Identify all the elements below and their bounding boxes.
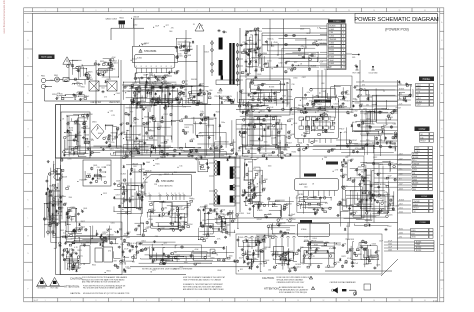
svg-text:R612: R612 [340,99,344,101]
svg-text:R105: R105 [119,183,123,185]
svg-text:C605: C605 [221,210,225,212]
svg-text:R230: R230 [216,112,220,114]
svg-text:CON3: CON3 [421,196,428,198]
svg-text:FR107: FR107 [339,129,344,131]
svg-text:C605: C605 [388,244,392,246]
svg-text:D204: D204 [399,212,403,214]
svg-text:D603: D603 [124,208,128,210]
svg-text:(POWER PCB): (POWER PCB) [385,27,409,31]
svg-text:9: 9 [247,10,248,12]
svg-text:1N4148: 1N4148 [160,157,166,159]
svg-text:BC858: BC858 [399,89,404,91]
svg-text:100n: 100n [264,141,268,143]
svg-text:47uF: 47uF [293,123,297,125]
svg-text:C64: C64 [122,272,125,274]
svg-text:R105: R105 [417,88,421,90]
svg-text:R612: R612 [130,199,134,201]
svg-text:IC805: IC805 [257,210,263,212]
svg-text:C605: C605 [116,148,120,150]
svg-text:1N4148: 1N4148 [413,163,419,165]
svg-text:1N4148: 1N4148 [77,92,83,94]
svg-text:C817: C817 [64,150,68,152]
svg-text:R77: R77 [399,179,402,181]
svg-text:FR107: FR107 [257,219,262,221]
svg-text:47uF: 47uF [388,241,392,243]
svg-text:C605: C605 [388,215,392,217]
svg-text:BC858: BC858 [269,86,274,88]
svg-text:BC858: BC858 [349,239,354,241]
svg-text:C605: C605 [266,126,270,128]
svg-text:ZD60: ZD60 [248,31,252,33]
svg-text:R77: R77 [412,233,415,235]
svg-text:C90: C90 [364,114,367,116]
svg-text:330: 330 [78,66,81,68]
svg-text:C64: C64 [50,80,53,82]
svg-text:100n: 100n [268,165,272,167]
svg-text:10uF: 10uF [379,241,383,243]
svg-text:0.1u: 0.1u [372,209,375,211]
svg-text:CAUTION:: CAUTION: [70,292,81,295]
svg-text:BC858: BC858 [179,209,185,211]
svg-text:R44: R44 [366,223,369,225]
svg-text:BC858: BC858 [392,111,397,113]
svg-text:R230: R230 [296,107,300,109]
svg-text:BC858: BC858 [302,99,307,101]
svg-text:D603: D603 [413,179,417,181]
svg-text:D11: D11 [421,137,424,139]
svg-text:D11: D11 [88,174,91,176]
svg-text:R230: R230 [170,209,174,211]
svg-text:0.1u: 0.1u [248,58,252,60]
svg-text:1N4148: 1N4148 [145,171,151,173]
svg-text:475: 475 [171,27,174,29]
svg-text:R77: R77 [272,138,275,140]
svg-text:475: 475 [376,197,379,199]
svg-text:ZD60: ZD60 [313,141,317,143]
svg-text:D603: D603 [368,97,372,99]
svg-text:1N4148: 1N4148 [414,201,420,203]
svg-text:T8001: T8001 [119,18,124,20]
svg-text:Q601: Q601 [306,254,310,256]
svg-text:8: 8 [171,66,172,68]
svg-text:C605: C605 [122,148,126,150]
svg-text:7: 7 [197,10,198,12]
svg-text:C90: C90 [66,136,69,138]
svg-text:100n: 100n [135,119,139,121]
svg-text:D603: D603 [84,126,88,128]
svg-text:C90: C90 [111,142,114,144]
svg-text:100n: 100n [286,230,290,232]
svg-text:R821: R821 [341,256,345,258]
svg-text:3: 3 [343,32,344,34]
svg-text:R230: R230 [163,81,167,83]
svg-text:NOTES: ALL RESISTORS 1/4W 5%: NOTES: ALL RESISTORS 1/4W 5% UNLESS OTHE… [142,267,193,270]
svg-text:D204: D204 [133,58,137,60]
svg-text:C605: C605 [330,43,335,45]
svg-text:R230: R230 [76,268,80,270]
svg-text:R105: R105 [277,136,281,138]
svg-text:D11: D11 [378,173,381,175]
svg-text:330: 330 [184,89,187,91]
svg-text:C64: C64 [268,269,271,271]
svg-text:10: 10 [272,10,274,12]
svg-text:D603: D603 [395,206,399,208]
svg-text:D204: D204 [414,204,418,206]
svg-text:BC858: BC858 [413,157,418,159]
svg-text:14: 14 [373,300,375,302]
svg-text:2: 2 [70,10,71,12]
svg-text:R77: R77 [130,111,133,113]
svg-text:AND THAT IMPORTANT NOTICE GIVE: AND THAT IMPORTANT NOTICE GIVEN BELOW [82,281,120,284]
svg-text:BC858: BC858 [413,154,418,156]
svg-text:R77: R77 [181,118,184,120]
svg-text:C64: C64 [381,109,384,111]
svg-text:R821: R821 [350,251,354,253]
svg-text:475: 475 [108,251,111,253]
svg-text:R230: R230 [283,149,287,151]
svg-text:D603: D603 [47,217,51,219]
svg-text:R230: R230 [292,151,296,153]
svg-text:R77: R77 [238,150,241,152]
svg-text:R105: R105 [165,75,169,77]
svg-text:Q601: Q601 [113,62,117,64]
svg-text:Q601: Q601 [140,100,144,102]
svg-text:10uF: 10uF [388,247,392,249]
svg-text:D603: D603 [285,204,289,206]
svg-text:Q601: Q601 [147,227,151,229]
svg-text:C817: C817 [417,105,421,107]
svg-text:100n: 100n [184,214,188,216]
svg-text:C605: C605 [146,162,150,164]
svg-text:C90: C90 [263,153,266,155]
svg-text:1N4148: 1N4148 [191,79,197,81]
svg-text:BC858: BC858 [238,213,244,215]
svg-text:D603: D603 [112,139,116,141]
svg-text:330: 330 [346,91,349,93]
svg-text:16: 16 [424,300,426,302]
svg-text:R44: R44 [223,215,226,217]
svg-text:COLD GND: COLD GND [369,73,379,75]
svg-text:10uF: 10uF [248,119,252,121]
svg-text:C817: C817 [133,166,137,168]
svg-text:CAUTION:: CAUTION: [262,276,275,280]
svg-text:C90: C90 [97,167,100,169]
svg-text:R44: R44 [140,243,143,245]
svg-text:12: 12 [343,63,345,65]
svg-text:D11: D11 [247,245,250,247]
svg-text:C312: C312 [160,228,164,230]
svg-text:C605: C605 [217,270,221,272]
svg-text:1N4148: 1N4148 [79,180,85,182]
svg-text:2: 2 [343,29,344,31]
svg-text:10uF: 10uF [211,145,215,147]
svg-text:R230: R230 [306,33,310,35]
svg-text:R105: R105 [307,110,311,112]
svg-text:6: 6 [171,10,172,12]
svg-text:R77: R77 [253,168,256,170]
svg-text:ZD60: ZD60 [365,177,369,179]
svg-text:11: 11 [297,300,299,302]
svg-text:0.1u: 0.1u [307,92,311,94]
svg-text:D603: D603 [303,133,307,135]
svg-text:ZD60: ZD60 [283,100,287,102]
svg-text:C605: C605 [416,244,420,246]
svg-text:475: 475 [104,97,107,99]
svg-text:C605: C605 [388,250,392,252]
svg-text:R612: R612 [261,111,265,113]
svg-text:330: 330 [351,159,354,161]
svg-text:47uF: 47uF [66,131,70,133]
svg-text:FR107: FR107 [259,90,264,92]
svg-text:C90: C90 [56,79,59,81]
svg-text:C817: C817 [116,194,120,196]
svg-text:C312: C312 [354,111,358,113]
svg-text:330: 330 [399,84,402,86]
svg-text:100n: 100n [260,202,264,204]
svg-text:D204: D204 [304,240,308,242]
svg-text:10: 10 [272,300,274,302]
svg-text:C605: C605 [116,93,120,95]
svg-text:8: 8 [343,50,344,52]
svg-text:LINE FILTER: LINE FILTER [91,102,102,104]
svg-text:0.1u: 0.1u [133,243,137,245]
svg-text:8: 8 [151,66,152,68]
svg-text:2: 2 [70,300,71,302]
svg-text:0.1u: 0.1u [247,112,251,114]
svg-text:BC858: BC858 [285,156,290,158]
svg-text:R821: R821 [107,271,111,273]
svg-text:Q601: Q601 [126,237,130,239]
svg-text:R44: R44 [283,95,286,97]
svg-text:R230: R230 [107,165,111,167]
svg-text:LF802: LF802 [106,79,111,81]
svg-text:BC858: BC858 [330,25,336,27]
svg-text:FR107: FR107 [421,141,426,143]
svg-text:FR107: FR107 [123,191,128,193]
svg-text:R612: R612 [366,143,370,145]
svg-text:Q601: Q601 [258,58,262,60]
svg-text:C312: C312 [164,114,168,116]
svg-text:330: 330 [278,264,281,266]
svg-text:FR107: FR107 [414,208,419,210]
svg-text:C312: C312 [247,251,251,253]
svg-text:C817: C817 [399,154,403,156]
svg-text:ZD60: ZD60 [263,53,267,55]
svg-text:D603: D603 [330,56,335,58]
svg-text:330: 330 [346,226,349,228]
svg-text:16: 16 [424,10,426,12]
svg-text:0.1u: 0.1u [413,160,416,162]
svg-text:R612: R612 [268,110,272,112]
svg-text:D603: D603 [258,31,262,33]
svg-text:S 4 T: S 4 T [34,300,40,302]
svg-text:0.1u: 0.1u [69,64,73,66]
svg-text:1N4148: 1N4148 [61,176,67,178]
svg-text:13: 13 [343,67,345,69]
svg-text:Q601: Q601 [249,107,253,109]
svg-text:ATTENTION:: ATTENTION: [264,286,280,290]
svg-text:3: 3 [95,10,96,12]
svg-text:C605: C605 [241,137,245,139]
svg-text:L: L [28,218,29,220]
svg-text:1N4148: 1N4148 [168,105,174,107]
svg-text:F: F [27,111,28,113]
svg-text:C605: C605 [330,29,335,31]
svg-text:R105: R105 [143,175,147,177]
svg-text:BC858: BC858 [151,135,157,137]
svg-text:BC858: BC858 [413,183,418,185]
svg-text:C90: C90 [353,179,356,181]
svg-text:R821: R821 [141,192,145,194]
svg-text:C64: C64 [164,207,167,209]
svg-text:R821: R821 [279,153,283,155]
svg-text:R105: R105 [412,230,416,232]
svg-text:1N4148: 1N4148 [125,137,131,139]
svg-text:0.1u: 0.1u [366,139,370,141]
svg-text:1N4148: 1N4148 [330,39,337,41]
svg-text:C90: C90 [384,178,387,180]
svg-text:ZD60: ZD60 [314,244,318,246]
svg-text:100n: 100n [248,237,252,239]
svg-text:R821: R821 [262,121,266,123]
svg-text:15: 15 [398,10,400,12]
svg-text:PANEL: PANEL [423,78,431,81]
svg-text:4: 4 [121,300,122,302]
svg-text:FR107: FR107 [336,245,341,247]
svg-text:R230: R230 [379,164,383,166]
svg-text:5: 5 [146,300,147,302]
svg-text:47uF: 47uF [195,249,199,251]
svg-text:C90: C90 [104,242,107,244]
svg-text:475: 475 [344,132,347,134]
svg-text:FR107: FR107 [164,174,169,176]
svg-text:3: 3 [95,300,96,302]
svg-text:HOT GND: HOT GND [51,288,60,290]
svg-text:R821: R821 [81,87,85,89]
svg-text:47uF: 47uF [385,109,389,111]
svg-text:www.freeservicemanuals.info: www.freeservicemanuals.info [2,0,6,34]
svg-text:D204: D204 [245,239,249,241]
svg-text:R612: R612 [152,260,156,262]
svg-text:C817: C817 [202,220,206,222]
svg-text:D11: D11 [248,103,251,105]
svg-text:C64: C64 [200,25,203,27]
svg-text:R612: R612 [309,197,313,199]
svg-text:1N4148: 1N4148 [132,164,138,166]
svg-text:C64: C64 [209,90,212,92]
svg-text:C817: C817 [291,114,295,116]
svg-text:D11: D11 [185,80,188,82]
svg-text:R612: R612 [81,221,85,223]
svg-text:BC858: BC858 [416,250,421,252]
svg-text:C64: C64 [279,218,282,220]
svg-text:D11: D11 [255,69,258,71]
svg-text:R612: R612 [279,84,283,86]
svg-text:1N4148: 1N4148 [279,222,285,224]
svg-text:6: 6 [343,43,344,45]
svg-text:R44: R44 [358,247,361,249]
svg-text:1N4148: 1N4148 [264,247,270,249]
svg-text:100n: 100n [76,82,80,84]
svg-text:475: 475 [362,84,365,86]
svg-text:ISOLATED: ISOLATED [38,287,47,290]
svg-text:ZD60: ZD60 [399,233,403,235]
svg-text:100n: 100n [254,193,258,195]
svg-text:8: 8 [166,66,167,68]
svg-text:0.1u: 0.1u [270,38,273,40]
svg-text:C64: C64 [109,229,112,231]
svg-text:47uF: 47uF [304,237,308,239]
svg-text:C817: C817 [127,232,131,234]
svg-text:1N4148: 1N4148 [133,16,139,18]
svg-text:D11: D11 [371,124,374,126]
svg-text:C312: C312 [373,157,377,159]
svg-text:C64: C64 [342,174,345,176]
svg-text:FR107: FR107 [286,143,291,145]
svg-text:Q601: Q601 [109,149,113,151]
svg-text:7: 7 [197,300,198,302]
svg-text:R612: R612 [185,132,189,134]
svg-text:Q601: Q601 [179,267,183,269]
svg-text:Q601: Q601 [83,208,87,210]
svg-text:ZD60: ZD60 [274,42,278,44]
svg-text:100n: 100n [125,266,129,268]
svg-text:C90: C90 [399,237,402,239]
svg-text:FR107: FR107 [103,232,108,234]
svg-text:D603: D603 [330,46,335,48]
svg-text:10uF: 10uF [399,184,403,186]
svg-text:R105: R105 [217,213,221,215]
svg-text:D204: D204 [67,158,71,160]
svg-text:FR107: FR107 [344,100,349,102]
svg-text:D204: D204 [173,268,177,270]
svg-text:POWER SCHEMATIC DIAGRAM: POWER SCHEMATIC DIAGRAM [354,17,439,23]
svg-text:D603: D603 [205,51,209,53]
svg-text:R612: R612 [364,248,368,250]
svg-text:475: 475 [342,108,345,110]
svg-text:ZD60: ZD60 [210,258,214,260]
svg-text:R105: R105 [343,167,347,169]
svg-text:LF801: LF801 [88,79,93,81]
svg-text:SONT LA MEME DU TYPE INDIQUE: SONT LA MEME DU TYPE INDIQUE [279,291,308,294]
svg-text:C90: C90 [240,90,243,92]
svg-text:475: 475 [148,79,151,81]
svg-text:R44: R44 [97,90,100,92]
svg-text:6: 6 [171,300,172,302]
svg-text:C817: C817 [49,224,53,226]
svg-text:C312: C312 [334,104,338,106]
svg-text:FR107: FR107 [199,90,204,92]
svg-text:Q601: Q601 [417,98,421,100]
svg-text:C605: C605 [257,74,261,76]
svg-text:10: 10 [343,56,345,58]
svg-text:ZD60: ZD60 [105,137,109,139]
svg-text:R230: R230 [199,136,203,138]
svg-text:5: 5 [343,39,344,41]
svg-text:475: 475 [91,140,94,142]
svg-text:100n: 100n [416,148,420,150]
svg-text:8: 8 [161,66,162,68]
svg-text:R612: R612 [248,99,252,101]
svg-text:D11: D11 [166,140,169,142]
svg-text:C64: C64 [143,75,146,77]
svg-text:C312: C312 [132,123,136,125]
svg-text:C64: C64 [393,124,396,126]
svg-text:D11: D11 [366,104,369,106]
svg-text:R44: R44 [323,43,326,45]
svg-text:ZD60: ZD60 [289,118,293,120]
svg-text:C64: C64 [127,91,130,93]
